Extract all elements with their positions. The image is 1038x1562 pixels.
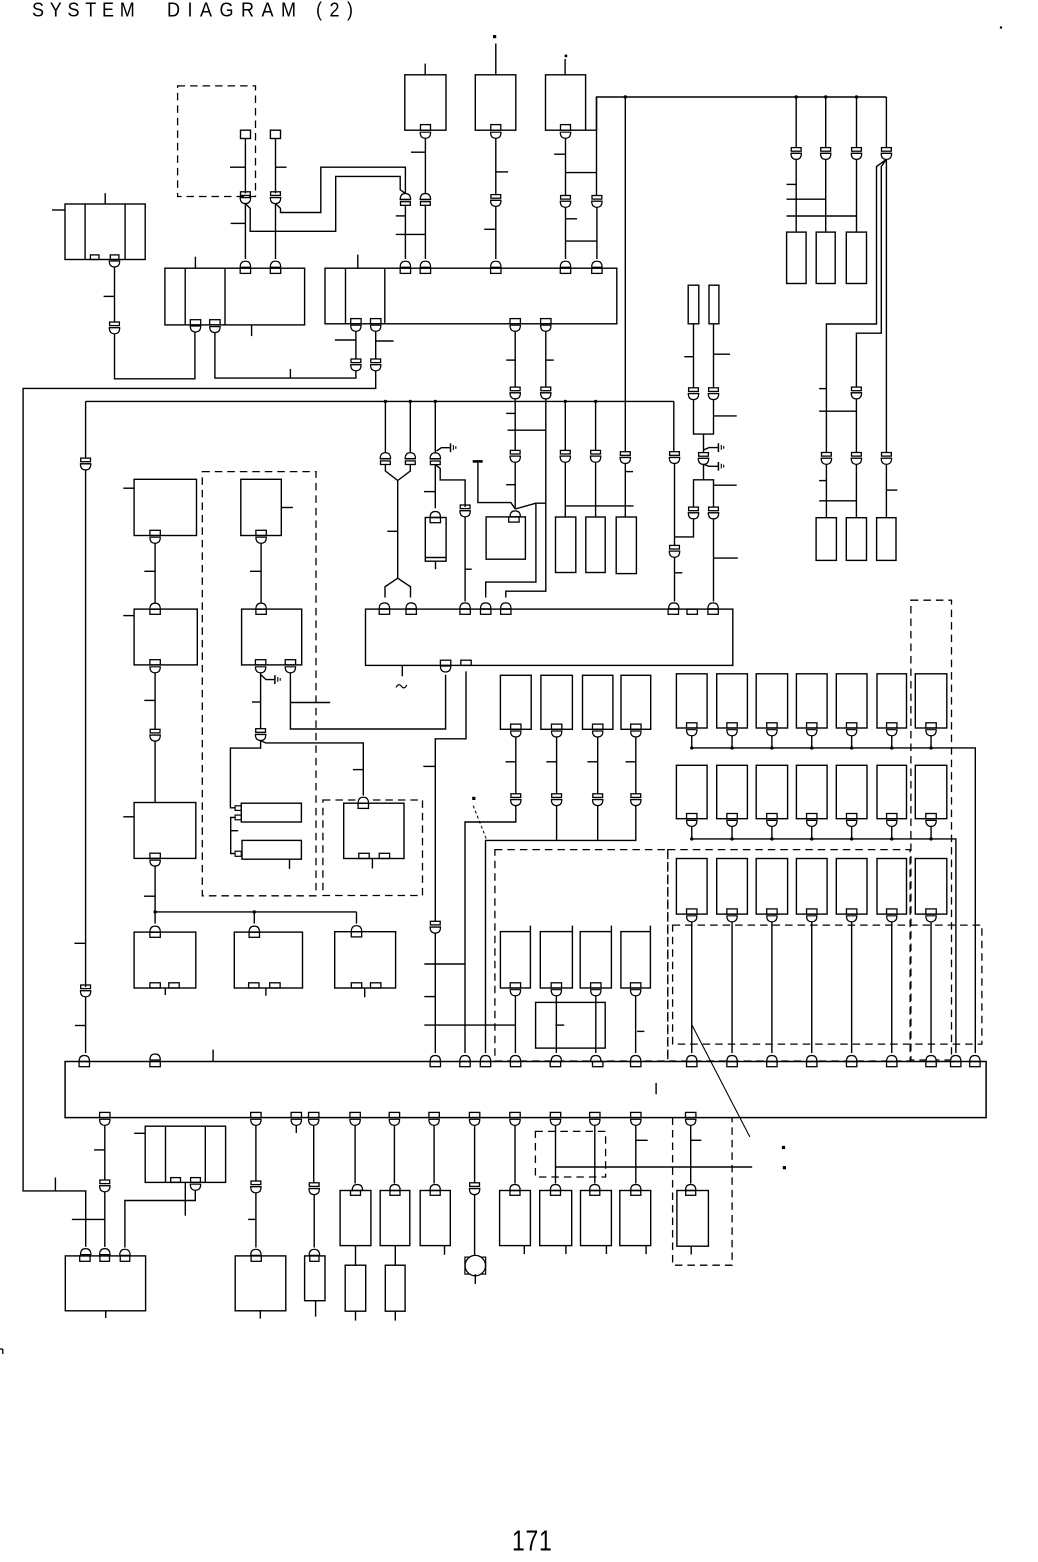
junction G1-7 [929,746,932,749]
box B1 divider 1 [184,268,186,325]
wire 515 lower [506,462,515,509]
wire 104 lowest [104,1192,106,1247]
box BUS top notch 955 [951,1062,961,1067]
box bb4 [500,1191,531,1246]
connector dome under G2-3 [767,820,777,826]
junction G2-4 [810,837,813,840]
box G3-2 [717,859,748,915]
connector on plug1 wire [240,192,251,204]
box M bottom pin [401,665,403,676]
wire plug2 lower [275,204,277,259]
box bb3 notch [430,1191,440,1196]
box RT1 [816,518,836,561]
box Bb3 notch [591,983,601,988]
box G3-4 notch [807,909,817,914]
wire 796 lower [787,159,857,232]
connector mid T2 wire [490,195,501,207]
connector 856 row450 [851,453,862,465]
box G1-1 [676,674,707,728]
connector dome 505 into boxM [501,603,511,609]
dashed box D8 [535,1131,605,1177]
box BUS top notch G5 [846,1062,856,1067]
wire net 596 down [596,97,598,196]
connector dome below bus 555.5 [550,1119,560,1125]
connector dome 410 into boxM [406,603,416,609]
box A3 notch [593,724,603,729]
junction G2-2 [730,837,733,840]
connector dome under G3-6 [887,916,897,922]
connector dome under G3-2 [727,916,737,922]
connector dome into boxR [358,797,368,803]
box BUS stub 213 [212,1050,214,1062]
wire C2right to boxM pin [290,673,445,729]
wire G1-5 drop [851,736,853,748]
box BUS top notch G7 [926,1062,936,1067]
box M top notch 384.4 [379,609,389,614]
connector dome under G2-1 [687,820,697,826]
connector dome onto box 355.1 [352,1185,362,1191]
junction G2-3 [770,837,773,840]
box MB divider 1 [165,1126,167,1182]
connector dome under G1-7 [926,730,936,736]
connector dome below bus 255 [251,1119,261,1125]
box G1-7 [915,674,947,728]
connector dome under G3-3 [767,916,777,922]
wire L2-L3 [144,673,155,730]
connector 565 [560,450,571,462]
box BUS top notch 465.0 [460,1062,470,1067]
wire 435 drop [434,401,436,452]
wire G3-1 drop [691,922,693,1053]
dot above box T3 [565,55,568,58]
box B1 top notch 1 [240,268,250,273]
connector 713 [708,388,719,400]
box Bb1 notch [510,983,520,988]
box B2 bottom notch 545.8 [541,319,551,324]
connector 410 [405,453,416,465]
wire 565 drop [564,401,566,450]
box T2 pin [495,44,497,75]
connector dome under box2 375 [371,325,381,331]
wire G1-1 drop [691,736,693,748]
box Bb3 [580,932,611,988]
connector mid T1 wire [420,194,431,206]
connector on 856 [851,148,862,160]
junction G1-2 [730,746,733,749]
connector dome under TL [109,261,119,267]
box BUS bottom notch 296.3 [291,1112,301,1117]
wire TL to box1 pin [115,332,195,378]
connector dome under L2 [150,667,160,673]
wire 434.1 down [433,1125,435,1183]
box M1 top notch [430,518,440,523]
box G3-5 notch [846,909,856,914]
ground comb 703 upper [704,443,724,452]
box bb7 stub [645,1246,647,1255]
junction G1-1 [690,746,693,749]
wire G2-6 drop [891,826,893,839]
wire G3-4 drop [811,922,813,1053]
box bb5 [540,1191,572,1246]
box L4 top notch [150,932,160,937]
connector 826 row450 [821,453,832,465]
box G2-3 [756,765,787,818]
connector dome under box2 515 [510,325,520,331]
wire LC link [565,505,633,507]
connector on L2 wire [150,729,161,741]
wire 713 upper [714,324,731,388]
box M [366,609,733,665]
box R4 notch 2 [371,983,381,988]
box G1-2 notch [727,723,737,728]
box MB [145,1126,225,1182]
leader diagonal [692,1025,750,1137]
wire 826 lower [825,159,827,232]
box BUS bottom notch 555.5 [550,1112,560,1117]
junction G1-5 [850,746,853,749]
box L3 left pin [123,816,134,818]
connector dome below bus 515.0 [510,1119,520,1125]
junction bus401 595.6 [594,400,597,403]
box TL notch 2 [110,255,119,260]
box G1-4 [796,674,827,728]
box bb1b [345,1265,366,1311]
connector dome under A2 [551,731,561,737]
connector dome into boxM2 [510,511,520,517]
box bb1b stub [355,1311,357,1320]
wire 375 to far left [23,371,376,1247]
connector dome into R4 [351,926,361,932]
box G1-1 notch [687,723,697,728]
connector dome under G2-4 [807,820,817,826]
wire C2left to H1 [230,741,260,808]
connector dome below bus 394.4 [389,1119,399,1125]
box L2 notch [150,660,160,665]
box Bb2 [540,932,572,988]
box C4 notch 2 [270,983,280,988]
connector dome under T3 [560,132,570,138]
box G2-5 notch [846,814,856,819]
junction G2-5 [850,837,853,840]
connector dome G3-5 into busbox [846,1056,856,1062]
box TL left pin [52,209,65,211]
wire A from plug2 [276,167,406,212]
dashed box D2 [202,472,316,896]
wire bus G1 [692,748,976,1053]
box Bb3 ear [610,926,612,932]
wire L2-L3 lower [154,741,156,802]
connector dome 85 into busbox [79,1056,89,1062]
junction bus401 410.3 [409,400,412,403]
connector dome plug1 into box1 [240,261,250,267]
box TL top pin [104,193,106,204]
box H1 [241,803,301,822]
wire Bb2 drop [555,996,557,1053]
box BUS top notch G3 [767,1062,777,1067]
wire net596 lower [596,207,598,259]
wire 692 upper [684,324,693,388]
wire 674 mid [674,464,676,546]
wire A3 net [597,737,599,794]
box BUS top notch 155 [150,1062,160,1067]
wire L1-L2 [144,543,155,603]
bus box inner mark [655,1083,657,1094]
box A1 [500,675,531,729]
wire fan line 2 [856,159,886,387]
box NB1 [688,285,699,324]
box BUS bottom notch 515.0 [510,1112,520,1117]
box BUS bottom notch 394.4 [389,1112,399,1117]
junction G2-6 [890,837,893,840]
wire plug1 lower [231,204,246,259]
connector dome 435 into boxM1 [430,512,440,518]
box BUS bottom notch 690.7 [686,1112,696,1117]
connector dome below bus 296 [291,1119,301,1125]
wire Bb4 tick [637,1030,644,1032]
connector dome under G1-2 [727,730,737,736]
box M1 [425,518,446,562]
junction G2-1 [690,837,693,840]
dashed box D6 [673,925,982,1044]
box TL notch 1 [90,255,99,260]
connector dome under G2-2 [727,820,737,826]
connector dome 385 into boxM [379,603,389,609]
junction top bus 3 [824,95,827,98]
box bb8 [677,1191,709,1247]
dashed box D7 [673,1118,733,1266]
wire G1-6 drop [891,736,893,748]
box M2 [486,517,525,559]
wire 296 stub [295,1125,297,1133]
box B1 top pin [194,257,196,269]
wire A2 lower [556,806,558,841]
wire 465 lower [465,517,472,602]
dot annotation right 1 [782,1146,785,1149]
connector dome Bb4 into busbox [630,1056,640,1062]
wire 692 to 674 [675,519,694,537]
wire Bb4 drop [635,996,637,1053]
box A3 [583,675,613,729]
wire H1 to H2 [231,817,239,853]
connector on 886 [881,148,892,160]
wire bus G2 [692,839,956,1053]
wire bus912 [155,911,356,913]
box H2 pin notch [235,851,241,856]
box G1-2 [717,674,748,728]
box M top notch 465.1 [460,609,470,614]
box BUS top notch G1 [687,1062,697,1067]
connector dome under L1 [150,537,160,543]
connector 545 [540,387,551,399]
wire T2 down [496,138,508,194]
box C5 [235,1256,286,1311]
wire 410 drop [409,401,411,452]
svg-text:SYSTEM: SYSTEM [32,0,140,22]
connector dome onto box 690.7 [686,1185,696,1191]
box B2 top notch 596.9 [592,268,602,273]
box TL divider 1 [84,204,86,260]
wire plug1 down [230,139,245,194]
box BUS top notch G4 [807,1062,817,1067]
wire T3 down [554,138,596,195]
connector dome 465 into boxM [460,603,470,609]
connector dome 485 into boxM [481,603,491,609]
box R notch 2 [379,853,389,858]
connector on 85 lower [80,985,91,997]
box LC1 [556,517,576,573]
connector dome onto box 555.5 [550,1185,560,1191]
connector on 375 wire [370,359,381,371]
wire TL down [104,267,115,323]
connector 674 b [669,545,680,557]
box bb8 stub [690,1246,692,1254]
box RT2 [846,518,866,561]
connector dome into box1 [190,326,200,332]
connector on 85 upper [80,458,91,470]
wire Bb3 drop [595,996,597,1053]
leader dashed [473,806,486,839]
wire 85 lowest [75,997,86,1053]
wire 635.8 down [635,1125,637,1183]
box L1 [134,479,196,535]
dot annotation mid [472,797,475,800]
dashed box D3 [323,800,423,896]
box B1 top notch 2 [270,268,280,273]
box G3-4 [796,859,827,915]
connector on 796 [791,148,802,160]
connector 625 [620,452,631,464]
box BUS top notch G6 [887,1062,897,1067]
box G2-5 [836,765,867,818]
junction bus401 435.3 [434,400,437,403]
box L4 notch 2 [169,983,179,988]
box BUS bottom notch 594.8 [590,1112,600,1117]
box R4 stub [364,988,366,997]
box BL notch 2 [100,1256,110,1261]
box NB2 [709,285,719,324]
box MB bottom pin [184,1182,186,1215]
box BUS top notch G2 [727,1062,737,1067]
box T2 [475,75,516,130]
box R4 [335,932,396,988]
box G1-6 [877,674,907,728]
box G1-6 notch [887,723,897,728]
box G2-2 notch [727,814,737,819]
box C2 [242,609,302,665]
connector dome below bus 594.8 [590,1119,600,1125]
wire 255 lowest [255,1193,257,1248]
connector dome under T1 [420,132,430,138]
box T1 pin [424,64,426,75]
junction bus912 b [253,910,256,913]
wire 594.8 down [594,1125,596,1183]
wire A4 lower [635,806,637,841]
box BUS bottom notch 355.1 [350,1112,360,1117]
wire C2left down [252,673,261,729]
junction G1-6 [890,746,893,749]
box C4 [234,932,302,988]
box MB divider 2 [204,1126,206,1182]
box bb1 [340,1191,371,1246]
box T1 notch [421,125,431,131]
connector dome T2 into box2 [491,261,501,267]
connector dome into C5 [251,1249,261,1255]
box G1-7 notch [926,723,936,728]
box N1 stub [315,1301,317,1317]
box TL [65,204,145,260]
box BL notch 1 [80,1256,90,1261]
connector on 355 wire [350,359,361,371]
box RN1 [787,232,807,283]
box T3 [546,75,586,130]
box B1 bottom stub [251,325,253,336]
connector 886 row450 [881,453,892,465]
wire 713 to boxM [714,519,738,602]
junction bus912 a [153,910,156,913]
wire C2left to R [261,741,364,796]
wire U split [694,464,737,507]
wire plug2 down [276,139,287,194]
wire T1 down [411,138,425,193]
wire 674 lower [675,557,683,601]
wire 375 tick [376,340,394,342]
wire 856 drop [856,97,858,148]
box bb3 stub [444,1246,446,1255]
connector on net596 [591,196,602,208]
connector on C2left [255,729,266,741]
wire G2-1 drop [691,826,693,839]
T-bar antenna [473,461,516,509]
box G2-7 notch [926,814,936,819]
box bb6 stub [605,1246,607,1255]
wire 85 mid [74,470,85,987]
connector dome into BL 2 [100,1249,110,1255]
box BUS top notch 485.5 [480,1062,490,1067]
wire B1pin2 net [215,333,356,379]
box C4 stub [265,988,267,996]
connector dome under G1-3 [767,730,777,736]
wire 355 upper [355,327,357,359]
box BUS top notch 84 [79,1062,89,1067]
box BL [65,1256,145,1311]
wire 375 upper [375,331,377,359]
connector 385 [380,453,391,465]
wire A3 tick [587,761,597,763]
wire G1-4 drop [811,736,813,748]
connector 713 low [708,507,719,519]
box N1 [305,1256,325,1301]
box G3-2 notch [727,909,737,914]
box B1 [165,268,305,325]
wire G2-5 drop [851,826,853,839]
wire pair split [385,578,411,597]
wire 886 drop [885,97,887,148]
wire G3-2 drop [731,922,733,1053]
connector dome below bus 474 [469,1119,479,1125]
box Bb4 [621,932,651,988]
wire 385 drop [384,401,386,452]
box bb2 [380,1191,410,1246]
connector dome under MB [190,1184,200,1190]
box RN3 [846,232,866,283]
box B1 bottom notch 2 [210,320,220,325]
box MB notch 2 [191,1178,201,1183]
wire T2 lower [484,206,496,259]
wire 674 drop [673,401,675,451]
box bb5 notch [551,1191,561,1196]
box H1 pin notch 2 [235,815,241,820]
wire top bus [586,97,887,130]
